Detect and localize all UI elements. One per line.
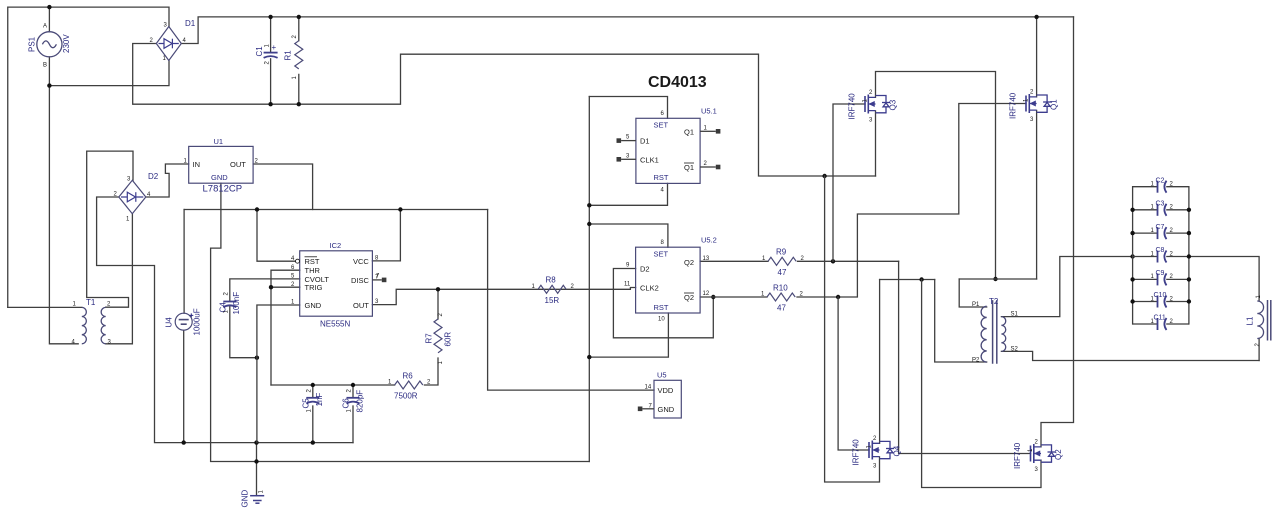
svg-text:230V: 230V	[62, 34, 71, 53]
terminal U5.1 Q1 square	[716, 129, 721, 134]
svg-text:1000uF: 1000uF	[193, 308, 202, 335]
svg-text:12: 12	[703, 291, 710, 297]
transistor Q2	[1031, 444, 1056, 463]
svg-text:GND: GND	[305, 301, 322, 310]
svg-text:IN: IN	[193, 160, 201, 169]
wire U1 GND down to ground rail2	[211, 183, 590, 461]
transformer T1	[82, 307, 106, 343]
bridge D1	[156, 27, 181, 61]
capacitor C3	[1130, 204, 1191, 216]
svg-text:C11: C11	[1154, 315, 1166, 322]
wire U5.2 RST	[589, 313, 668, 357]
svg-text:IC2: IC2	[330, 241, 342, 250]
wire D1 pin4 to DC plus rail	[181, 17, 1073, 44]
svg-text:C6: C6	[342, 398, 351, 409]
svg-text:U5: U5	[657, 371, 667, 380]
svg-text:47: 47	[777, 304, 786, 313]
wire plus rail down to Q2 drain	[1041, 17, 1074, 447]
svg-text:RST: RST	[305, 257, 320, 266]
wire rail to Q4 source	[825, 176, 880, 482]
wire U5.1 Q1bar stub	[700, 166, 716, 168]
svg-text:R7: R7	[425, 333, 434, 344]
wire D1 pin2 down to DC minus rail	[133, 44, 876, 177]
svg-text:B: B	[43, 63, 47, 69]
source PS1	[37, 32, 62, 57]
wire Q1 drain stub	[1036, 17, 1038, 97]
wire Q3 source stub	[875, 111, 877, 176]
svg-text:TRIG: TRIG	[305, 283, 323, 292]
wire T1 pin3 to D2 pin1	[106, 214, 133, 344]
svg-text:Q2: Q2	[1054, 449, 1063, 460]
capacitor C9	[1130, 273, 1191, 285]
resistor R10	[767, 293, 795, 301]
wire R7 top stub	[437, 289, 439, 319]
svg-text:R10: R10	[773, 284, 788, 293]
svg-text:Q4: Q4	[893, 445, 902, 456]
wire node A to T2 P2	[935, 280, 987, 363]
svg-text:THR: THR	[305, 266, 321, 275]
node VCC-rail junction	[398, 207, 402, 211]
svg-text:C9: C9	[1156, 270, 1165, 277]
svg-text:T1: T1	[86, 298, 96, 307]
terminal U5 GND square	[638, 407, 643, 412]
wire timing row to R6	[271, 384, 395, 386]
wire PS1 top stub	[48, 7, 50, 32]
wire IC2 TRIG left	[271, 286, 300, 288]
svg-text:C1: C1	[255, 46, 264, 57]
capacitor C1	[264, 53, 278, 58]
wire R9 to gates row	[798, 260, 899, 262]
node R7-top junction	[436, 287, 440, 291]
svg-text:CLK1: CLK1	[640, 155, 659, 164]
svg-text:100nF: 100nF	[232, 292, 241, 315]
capacitor C10	[1130, 296, 1191, 308]
svg-text:SET: SET	[654, 250, 669, 259]
svg-text:CD4013: CD4013	[648, 74, 707, 91]
svg-text:OUT: OUT	[353, 301, 369, 310]
svg-text:VCC: VCC	[353, 257, 369, 266]
svg-text:GND: GND	[211, 173, 228, 182]
svg-text:P2: P2	[972, 358, 980, 364]
wire U5.1 CLK1 stub	[621, 158, 636, 160]
wire PS1 bottom to T1 pin4	[49, 57, 78, 344]
node U5.1-RST junction	[587, 203, 591, 207]
svg-text:R6: R6	[403, 372, 414, 381]
svg-text:D2: D2	[640, 264, 650, 273]
bridge D2	[119, 180, 146, 213]
transistor Q1	[1026, 94, 1051, 113]
wire capbank left rail	[1132, 187, 1134, 324]
wire 12V rail	[184, 209, 488, 211]
terminal U5.1 D1 square	[617, 138, 622, 143]
svg-text:R8: R8	[546, 276, 557, 285]
wire RST branch	[257, 210, 296, 262]
node R10-Q4gate junction	[836, 295, 840, 299]
wire rail to U4 plus	[183, 210, 185, 314]
svg-text:C2: C2	[1156, 177, 1165, 184]
wire U5 GND stub	[642, 408, 654, 410]
svg-text:C5: C5	[302, 398, 311, 409]
resistor R9	[768, 257, 796, 265]
wire U5.2 D2 toggle loop	[613, 269, 713, 338]
svg-text:P1: P1	[972, 302, 980, 308]
IC2 RST bubble	[296, 259, 300, 263]
node C4-gnd junction	[255, 356, 259, 360]
wire U5.1 Q1 stub	[700, 130, 716, 132]
wire U4 bottom stub	[183, 330, 185, 442]
node C5-top junction	[311, 383, 315, 387]
wire C4 bottom	[230, 307, 257, 358]
svg-text:R1: R1	[284, 50, 293, 61]
node Q2source-nodeA junction	[919, 277, 923, 281]
wire DISC stub	[372, 279, 381, 281]
svg-text:14: 14	[645, 385, 652, 391]
node Q1-drain junction	[1034, 15, 1038, 19]
svg-text:U1: U1	[214, 137, 224, 146]
svg-text:+: +	[272, 43, 277, 52]
block U5 box	[654, 380, 681, 418]
svg-text:PS1: PS1	[28, 36, 37, 52]
wire GND symbol stub	[256, 443, 258, 496]
svg-text:7500R: 7500R	[394, 392, 418, 401]
node C1-bottom junction	[268, 102, 272, 106]
node rail1-gnd junction	[254, 440, 258, 444]
svg-text:U5.2: U5.2	[701, 236, 717, 245]
capacitor C11	[1133, 318, 1189, 330]
wire R1 bottom stub	[298, 74, 300, 104]
node rail2-gnd junction	[254, 459, 258, 463]
capacitor C2	[1133, 181, 1189, 193]
wire R10 to Q1 gate	[797, 104, 1026, 298]
wire VCC branch	[372, 210, 400, 261]
node U4-bottom junction	[182, 440, 186, 444]
wire flipflop ground line	[588, 97, 590, 462]
node U5.2-RST junction	[587, 355, 591, 359]
ground symbol	[250, 496, 264, 504]
node Q2bar-loop junction	[711, 295, 715, 299]
svg-text:Q1: Q1	[684, 163, 694, 172]
wire U1 OUT to 12V rail	[253, 164, 313, 210]
wire U5.1 D1 stub	[621, 140, 636, 142]
wire R9 down to Q2 gate	[899, 261, 1031, 453]
svg-text:D1: D1	[640, 137, 650, 146]
node capbank-left-C8 junction	[1130, 254, 1134, 258]
wire D1 pin1 to PS1 bottom	[49, 61, 169, 86]
svg-text:GND: GND	[241, 490, 250, 508]
wire IC2 CVOLT to C4	[230, 279, 300, 301]
flipflop U5.2 box	[636, 247, 701, 313]
capacitor C4	[223, 302, 236, 308]
svg-text:S1: S1	[1011, 312, 1019, 318]
svg-text:D1: D1	[185, 19, 196, 28]
wire Q2 output to R9	[700, 260, 768, 262]
wire node B to T2 P1	[959, 279, 987, 307]
wire capbank right rail	[1188, 187, 1190, 324]
wire C1 top stub	[270, 17, 272, 52]
svg-text:U5.1: U5.1	[701, 107, 717, 116]
node C1-top junction	[268, 15, 272, 19]
regulator U1 box	[189, 146, 253, 183]
svg-text:GND: GND	[658, 405, 675, 414]
svg-text:R9: R9	[776, 248, 787, 257]
node R9-Q3gate junction	[831, 259, 835, 263]
inductor L1	[1257, 300, 1271, 341]
node THR-TRIG junction	[269, 285, 273, 289]
wire T2 S2 to L1 bottom	[1001, 351, 1259, 360]
wire IC2 GND down	[257, 305, 300, 443]
svg-text:1nF: 1nF	[315, 393, 324, 407]
node Q3-source-rail junction	[822, 174, 826, 178]
wire node A horizontal	[880, 279, 935, 281]
wire IC2 OUT to CLK2	[372, 288, 635, 305]
capacitor C5	[306, 398, 319, 404]
wire D2 pin4 to U1 IN	[146, 164, 189, 197]
svg-text:Q1: Q1	[684, 127, 694, 136]
svg-text:11: 11	[624, 281, 631, 287]
wire Q2bar output to R10	[700, 296, 767, 298]
wire node A to Q2 source	[922, 280, 1041, 488]
node PS1-bottom junction	[47, 83, 51, 87]
svg-text:13: 13	[703, 256, 710, 262]
terminal U5.1 CLK1 square	[617, 157, 622, 162]
node C6-top junction	[351, 383, 355, 387]
svg-text:RST: RST	[654, 173, 669, 182]
node C5-bottom junction	[311, 440, 315, 444]
wire Q3 drain to node B	[876, 72, 996, 280]
node R1-top junction	[297, 15, 301, 19]
node U5.2-SET junction	[587, 222, 591, 226]
svg-text:S2: S2	[1011, 347, 1019, 353]
svg-text:VDD: VDD	[658, 386, 674, 395]
svg-text:C8: C8	[1156, 247, 1165, 254]
svg-text:IRF740: IRF740	[1013, 442, 1022, 469]
wire IC2 THR left	[271, 270, 300, 385]
svg-text:15R: 15R	[545, 296, 560, 305]
node RST-rail junction	[255, 207, 259, 211]
svg-text:DISC: DISC	[351, 276, 370, 285]
wire C6 top stub	[352, 385, 354, 398]
resistor R6	[395, 381, 423, 389]
battery U4	[175, 313, 193, 330]
svg-text:SET: SET	[654, 121, 669, 130]
svg-text:Q3: Q3	[889, 99, 898, 110]
svg-text:Q1: Q1	[1050, 99, 1059, 110]
wire R6 to R7	[424, 358, 438, 385]
svg-text:10: 10	[658, 317, 665, 323]
wire Q4 drain to node A	[879, 280, 881, 444]
svg-text:RST: RST	[654, 303, 669, 312]
svg-text:L1: L1	[1246, 316, 1255, 325]
wire U5.2 SET	[589, 224, 668, 247]
wire D2 pin2 to ground rail1	[97, 197, 353, 443]
svg-text:Q2: Q2	[684, 293, 694, 302]
wire T1 pin1 row	[8, 306, 82, 308]
flipflop U5.1 box	[636, 118, 700, 183]
wire node B horizontal	[959, 278, 1036, 280]
node PS1-top junction	[47, 5, 51, 9]
wire C5 bottom stub	[312, 406, 314, 443]
wire R10 down to Q4 gate	[838, 297, 869, 450]
svg-text:OUT: OUT	[230, 160, 246, 169]
capacitor C7	[1130, 227, 1191, 239]
svg-text:T2: T2	[989, 297, 999, 306]
transistor Q4	[869, 441, 894, 460]
terminal U5.1 Q1bar square	[716, 165, 721, 170]
wire C6 bottom stub	[352, 406, 354, 443]
svg-text:NE555N: NE555N	[320, 320, 350, 329]
transistor Q3	[865, 95, 890, 114]
svg-text:IRF740: IRF740	[852, 439, 861, 466]
wire L1 bottom stub	[1258, 339, 1260, 361]
capacitor C6	[347, 398, 360, 404]
node R1-bottom junction	[297, 102, 301, 106]
svg-text:D2: D2	[148, 172, 159, 181]
wire U5.1 RST	[589, 183, 667, 205]
svg-text:IRF740: IRF740	[1009, 92, 1018, 119]
resistor R7	[434, 319, 442, 353]
svg-text:820pF: 820pF	[356, 390, 365, 413]
wire U5.1 SET	[589, 97, 667, 119]
wire Q1 source to node B	[1036, 110, 1038, 279]
node Q3drain-nodeB junction	[993, 277, 997, 281]
capacitor C8	[1133, 251, 1192, 263]
wire mains top rail	[8, 7, 169, 307]
wire T1 pin2 to D2 pin3	[87, 151, 133, 307]
svg-text:60R: 60R	[444, 332, 453, 347]
wire T2 S1 to cap bank	[1001, 257, 1132, 317]
wire capbank right to L1 top	[1189, 257, 1259, 302]
svg-text:U4: U4	[164, 317, 173, 328]
wire R1 top stub	[298, 17, 300, 41]
wire C5 top stub	[312, 385, 314, 398]
svg-text:A: A	[43, 24, 47, 30]
wire VDD branch to U5	[488, 210, 654, 391]
svg-text:L7812CP: L7812CP	[203, 184, 243, 195]
svg-text:47: 47	[778, 268, 787, 277]
resistor R1	[295, 41, 303, 69]
IC2 555 box	[300, 251, 373, 316]
svg-text:IRF740: IRF740	[848, 93, 857, 120]
svg-text:C10: C10	[1154, 292, 1167, 299]
svg-text:Q2: Q2	[684, 258, 694, 267]
svg-text:C3: C3	[1156, 201, 1165, 208]
resistor R8	[538, 285, 566, 293]
svg-text:CLK2: CLK2	[640, 283, 659, 292]
terminal DISC square	[382, 278, 387, 283]
wire C1 bottom stub	[270, 59, 272, 104]
svg-text:C7: C7	[1156, 224, 1165, 231]
transformer T2	[981, 300, 1006, 364]
wire Q3 gate branch	[833, 104, 865, 261]
